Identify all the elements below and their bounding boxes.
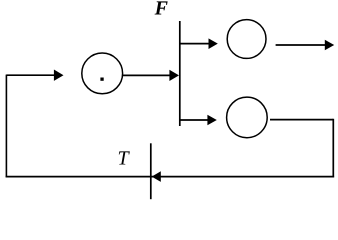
wire: arc from F to place P2 [180, 38, 218, 49]
wire: right vertical down to bottom feedback [332, 119, 334, 178]
wire: left vertical feedback segment [5, 75, 7, 178]
wire: bottom feedback horizontal segment [6, 176, 335, 178]
wire: input arc into place P1 [6, 70, 63, 81]
svg-text:F: F [154, 0, 169, 20]
wire: output arrow from P2 [276, 40, 335, 51]
place P1 [82, 53, 123, 94]
arrowhead into transition T (points left) [152, 171, 161, 182]
transition T bar [150, 143, 152, 199]
token in place P1 [100, 78, 103, 81]
place P3 [227, 97, 268, 138]
transition F bar [179, 21, 181, 126]
wire: arc from F to place P3 [180, 115, 217, 126]
wire: P3 output horizontal to right edge [270, 119, 333, 121]
svg-text:T: T [118, 147, 131, 169]
wire: arc from P1 into transition F [123, 70, 179, 81]
place P2 [227, 20, 266, 59]
